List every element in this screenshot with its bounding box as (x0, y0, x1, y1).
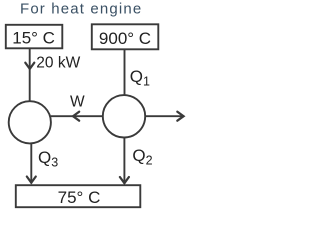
svg-text:75° C: 75° C (58, 188, 101, 207)
arrowhead on W wire (left) (73, 112, 79, 121)
wire: output arrow from right circle to right edge (145, 115, 183, 117)
arrowhead on output wire (right) (177, 112, 183, 121)
reservoir box 900 C (92, 24, 159, 49)
arrowhead on Q3 wire (down) (27, 177, 36, 183)
svg-text:W: W (70, 93, 85, 110)
svg-text:For heat engine: For heat engine (20, 1, 142, 18)
arrowhead on 20 kW wire (down) (25, 63, 34, 69)
reservoir box 75 C (16, 185, 141, 207)
wire: 20 kW input from 15C box to left circle (29, 48, 31, 101)
reservoir box 15 C (6, 25, 63, 49)
svg-text:20 kW: 20 kW (36, 55, 80, 72)
arrowhead on Q2 wire (down) (120, 177, 129, 183)
heat engine circle (right) (103, 95, 145, 137)
heat pump circle (left) (9, 101, 51, 143)
wire: Q3 from left circle to 75C box (30, 143, 32, 183)
wire: W from right circle to left circle (51, 115, 103, 117)
wire: Q2 from right circle to 75C box (123, 137, 125, 184)
svg-text:15° C: 15° C (12, 28, 55, 47)
wire: Q1 from 900C box to right circle (124, 49, 126, 95)
svg-text:900° C: 900° C (99, 29, 151, 48)
